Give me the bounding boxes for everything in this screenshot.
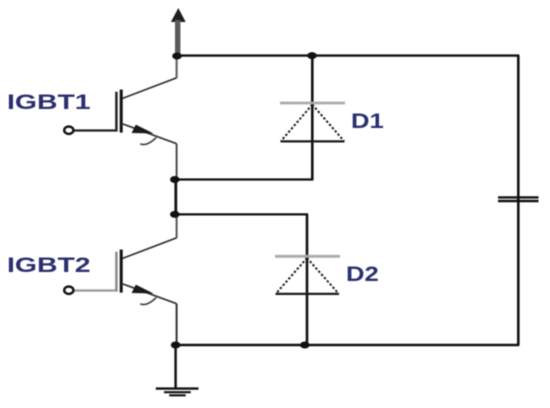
node supply junction <box>172 53 182 60</box>
label D1 <box>351 111 384 132</box>
node D1 top junction <box>307 52 317 59</box>
wire bottom rail <box>176 344 520 346</box>
diode D2 <box>275 256 340 294</box>
wire midpoint to D2 cathode <box>175 213 308 215</box>
wire right side <box>517 56 520 345</box>
wire midpoint to D1 anode <box>175 178 313 180</box>
wire between midpoint nodes <box>174 180 177 215</box>
transistor IGBT2 <box>64 214 176 345</box>
supply arrow <box>171 8 186 57</box>
label IGBT1 <box>7 92 91 114</box>
node midpoint A <box>170 176 180 183</box>
diode D1 <box>280 103 345 141</box>
label IGBT2 <box>7 255 91 277</box>
node D2 bottom junction <box>300 342 310 349</box>
capacitor C1 <box>498 197 539 201</box>
wire D1 branch vertical <box>311 56 314 180</box>
wire D2 branch vertical <box>306 214 309 345</box>
wire top rail <box>176 54 519 56</box>
label D2 <box>346 264 379 285</box>
transistor IGBT1 <box>64 56 176 180</box>
node ground junction <box>171 342 181 349</box>
ground <box>156 345 199 395</box>
node midpoint B <box>170 211 180 218</box>
